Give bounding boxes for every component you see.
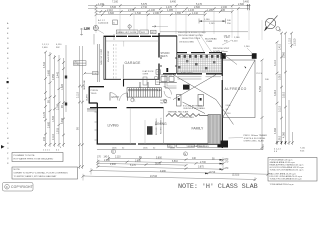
svg-text:1,620: 1,620: [61, 83, 64, 90]
svg-text:SEL. TILES: SEL. TILES: [198, 146, 209, 148]
svg-text:13,010: 13,010: [294, 38, 297, 46]
190 boxed label: [93, 72, 99, 75]
svg-text:J: J: [7, 123, 8, 125]
svg-text:1,160: 1,160: [204, 19, 210, 21]
svg-text:2,440: 2,440: [56, 71, 59, 78]
tag circle A: [93, 25, 98, 30]
svg-text:4,460: 4,460: [274, 127, 277, 134]
dim line row 4: [96, 14, 205, 16]
svg-text:1,905: 1,905: [167, 9, 174, 12]
boxed tag over garage: [113, 20, 118, 25]
svg-text:1,240: 1,240: [244, 46, 250, 48]
svg-text:TO ENTRY, FAMILY, KITCHEN & HA: TO ENTRY, FAMILY, KITCHEN & HALLWAY: [14, 175, 57, 178]
misc small text above area box: [300, 148, 306, 153]
svg-text:9,480: 9,480: [160, 171, 166, 173]
svg-text:SQ SET: SQ SET: [160, 103, 168, 105]
staircase: [127, 88, 161, 97]
svg-text:OWNER TO SUPPLY & INSTALL FLOO: OWNER TO SUPPLY & INSTALL FLOOR COVERING…: [14, 172, 69, 175]
porch steps: [87, 109, 96, 111]
svg-text:HOT WATER PIPES TO BE INSULATE: HOT WATER PIPES TO BE INSULATED: [14, 158, 54, 161]
solid arrowheads at right ends: [205, 159, 223, 174]
svg-text:38,75: 38,75: [155, 163, 161, 165]
svg-text:7,160: 7,160: [112, 0, 119, 3]
darker bench row in terrace: [178, 55, 219, 69]
dim line C: [98, 167, 223, 170]
svg-text:1,540: 1,540: [135, 12, 142, 15]
svg-text:1,915: 1,915: [56, 127, 59, 134]
svg-text:4,510: 4,510: [43, 61, 46, 68]
svg-text:CEILING & SET PANEL: CEILING & SET PANEL: [183, 107, 206, 110]
alfresco side dim: [261, 60, 263, 150]
svg-text:JOISTS & FLOORING: JOISTS & FLOORING: [244, 138, 266, 140]
circled tag on dining wall: [163, 99, 166, 102]
rotated tiny labels: [43, 61, 80, 141]
svg-text:SAW CUT JOINT: SAW CUT JOINT: [100, 48, 103, 65]
left margin amendment column: [1, 22, 9, 165]
svg-text:2,700: 2,700: [200, 162, 206, 164]
svg-text:2,110: 2,110: [52, 134, 55, 140]
left dimension strings: [42, 44, 89, 169]
svg-text:NOTE: 'H' CLASS SLAB: NOTE: 'H' CLASS SLAB: [178, 183, 258, 191]
svg-text:ALFRESCO: ALFRESCO: [225, 87, 247, 91]
svg-text:3,600: 3,600: [108, 12, 115, 15]
wall extension pair: [65, 45, 67, 112]
svg-text:TOTAL F.FLOOR AREA 83.33 sq.m: TOTAL F.FLOOR AREA 83.33 sq.m: [270, 177, 302, 180]
pantry unit left: [177, 95, 182, 107]
kitchen counter along terrace wall: [178, 77, 222, 79]
thermal break zigzag: [166, 114, 208, 117]
svg-text:3,600: 3,600: [47, 69, 50, 76]
svg-text:(2,510): (2,510): [232, 174, 240, 176]
garage inner lining: [113, 44, 115, 79]
hall wall above living: [90, 107, 164, 109]
extension lines down to plan: [96, 4, 262, 40]
svg-text:2,160: 2,160: [234, 37, 240, 39]
ensuite partitions above stairs: [140, 77, 177, 88]
bbq corner hip diagonal: [223, 54, 238, 65]
right dimension strings: [257, 32, 297, 153]
svg-text:1,280: 1,280: [207, 9, 214, 12]
powder room fixtures: [154, 76, 158, 80]
svg-text:OVER CONC. SLAB: OVER CONC. SLAB: [244, 140, 265, 143]
svg-text:NOTE:: NOTE:: [14, 169, 21, 171]
living-dining divider: [129, 108, 131, 144]
svg-text:2,030: 2,030: [56, 103, 59, 110]
vertical dim lines: [45, 52, 47, 147]
plan walls: [89, 33, 257, 148]
garage door return wall: [123, 79, 125, 87]
svg-text:2,600: 2,600: [110, 164, 116, 166]
bottom end labels: [276, 142, 286, 145]
circled tags D and E: [112, 150, 116, 154]
svg-text:1,540: 1,540: [52, 115, 55, 122]
floor coverings note box: [12, 167, 78, 179]
svg-text:D: D: [112, 151, 114, 154]
bottom dimension block: [82, 150, 270, 181]
svg-text:1 1 1 1: 1 1 1 1: [43, 150, 50, 152]
family side small dims: [226, 105, 232, 115]
pantry unit right: [198, 95, 204, 107]
svg-text:PROVIDE STEP: PROVIDE STEP: [213, 48, 230, 50]
family deck strip hatch: [208, 115, 221, 145]
svg-text:5,220: 5,220: [232, 41, 238, 43]
svg-text:8,490: 8,490: [170, 1, 177, 4]
svg-text:THERMAL PAIL N AIR: THERMAL PAIL N AIR: [168, 110, 189, 113]
alfresco top posts: [221, 53, 226, 59]
dim line row 1: [88, 5, 249, 7]
svg-text:945: 945: [221, 9, 226, 12]
dark tick blobs on x66 line: [65, 76, 67, 106]
right side note: timber joists: [244, 135, 268, 143]
hall door swings: [164, 87, 172, 95]
svg-text:TOTAL AREA 293.64 sq.m: TOTAL AREA 293.64 sq.m: [270, 183, 294, 186]
small arrow marker: [152, 25, 156, 27]
svg-text:ENTRY: ENTRY: [112, 97, 120, 99]
svg-text:2,600: 2,600: [42, 47, 48, 49]
svg-text:2,600: 2,600: [224, 37, 230, 39]
svg-text:2,510: 2,510: [226, 113, 232, 115]
garage outer leaf lines: [97, 44, 99, 82]
svg-text:4,060: 4,060: [283, 131, 286, 138]
alfresco-side wall with window gaps: [177, 52, 222, 54]
svg-text:5,600: 5,600: [156, 157, 162, 159]
svg-text:BED 5: BED 5: [161, 55, 169, 58]
thermal label: [168, 106, 206, 120]
dim line B: [98, 163, 186, 165]
svg-text:3,960: 3,960: [283, 51, 286, 58]
svg-text:6,510: 6,510: [172, 161, 178, 163]
svg-text:OVER: OVER: [143, 73, 149, 75]
dim labels: [98, 0, 250, 15]
mid dim line right: [199, 19, 226, 24]
svg-text:2,470: 2,470: [128, 9, 135, 12]
left small bracket dim 1,190: [80, 28, 114, 45]
north arrow: [264, 16, 283, 33]
svg-text:1,110: 1,110: [289, 38, 292, 44]
svg-text:1,410: 1,410: [192, 12, 199, 15]
kitchen bench: [165, 75, 177, 88]
plumber note box: [12, 153, 63, 162]
svg-text:3,875: 3,875: [198, 167, 204, 169]
svg-text:2,600: 2,600: [238, 3, 245, 6]
dim line row 3: [96, 11, 232, 13]
kitchen island: [183, 85, 190, 90]
svg-text:PROVIDE WEEP HOLES: PROVIDE WEEP HOLES: [178, 35, 203, 37]
svg-text:ON 50mm BED: ON 50mm BED: [179, 42, 194, 44]
hall cupboard: [143, 77, 147, 85]
svg-text:4,110: 4,110: [56, 44, 62, 46]
svg-text:900x2100 SLIDING DOORS: 900x2100 SLIDING DOORS: [178, 32, 206, 34]
room labels: [91, 52, 247, 148]
cross ticks: [44, 51, 84, 168]
bottom wall: [97, 143, 228, 145]
svg-text:SET DOWN: SET DOWN: [161, 75, 173, 77]
svg-text:2,600: 2,600: [226, 105, 232, 107]
small dims right of alfresco: [257, 73, 270, 81]
tiled terrace grid hatch: [177, 55, 222, 73]
svg-text:KITCHEN: KITCHEN: [181, 71, 193, 75]
svg-text:2,600: 2,600: [47, 121, 50, 128]
svg-text:GARAGE: GARAGE: [125, 61, 142, 65]
family right wall: [221, 53, 223, 148]
top dimension block: [80, 0, 262, 44]
svg-text:SELECTED TILES: SELECTED TILES: [182, 38, 201, 40]
svg-text:2,600: 2,600: [104, 160, 110, 162]
svg-text:5,170: 5,170: [130, 165, 136, 167]
garage top wall: [104, 35, 160, 37]
copyright box: [3, 183, 34, 192]
dining-family divider: [163, 108, 165, 144]
veranda tag boxes: [168, 145, 218, 148]
living left wall: [96, 103, 98, 145]
window tag boxes above garage: [116, 30, 156, 34]
boundary line: [160, 31, 248, 33]
svg-text:90x90 POST: 90x90 POST: [108, 50, 110, 62]
svg-text:LIVING: LIVING: [108, 124, 119, 128]
wc under stairs: [131, 97, 136, 102]
svg-text:2,030: 2,030: [153, 12, 160, 15]
bottom arrow labels: [43, 147, 62, 152]
svg-text:TOTAL G.FLOOR AREA 210.31 sq.m: TOTAL G.FLOOR AREA 210.31 sq.m: [270, 168, 304, 171]
svg-text:2,600: 2,600: [194, 6, 201, 9]
svg-text:2,110: 2,110: [77, 92, 80, 98]
svg-text:5,170: 5,170: [43, 111, 46, 118]
svg-text:2,950: 2,950: [52, 73, 55, 80]
row ticks: [95, 4, 251, 16]
garage door inner lining: [106, 40, 159, 42]
left edge marker arrow: [1, 145, 5, 149]
dim line D: [91, 171, 268, 175]
svg-text:3,010: 3,010: [279, 73, 282, 80]
kitchen wall stub: [166, 68, 168, 72]
entry door swing: [110, 93, 118, 101]
svg-text:5,750: 5,750: [259, 85, 262, 92]
left mid window tags: [74, 61, 87, 66]
svg-text:TILED: TILED: [91, 93, 97, 95]
alfresco fall arrow: [244, 62, 249, 68]
roof cross diagonals over kitchen: [173, 75, 234, 125]
svg-text:1,190: 1,190: [84, 27, 91, 30]
top labels cluster: [42, 44, 62, 49]
svg-text:1,1,1,1: 1,1,1,1: [42, 44, 49, 46]
svg-text:PANEL LIFT DOOR: PANEL LIFT DOOR: [117, 31, 137, 34]
svg-text:2,910: 2,910: [279, 135, 282, 142]
ticks: [82, 157, 270, 181]
veranda edge line: [97, 149, 263, 151]
svg-text:3,600: 3,600: [135, 160, 141, 162]
svg-text:PLUMBER TO NOTE:: PLUMBER TO NOTE:: [14, 155, 36, 157]
entry bay walls: [89, 87, 104, 104]
dining nook dark: [147, 126, 153, 135]
studio top wall: [159, 35, 177, 37]
alfresco outline: [223, 60, 255, 118]
svg-text:3,915: 3,915: [61, 117, 64, 124]
svg-text:3,110: 3,110: [274, 60, 277, 66]
living window tick pairs on left wall: [95, 112, 98, 140]
svg-text:2,410: 2,410: [279, 43, 282, 50]
ticks: [276, 32, 295, 144]
dim line row 2: [88, 8, 249, 10]
svg-text:3,110: 3,110: [279, 106, 282, 112]
svg-text:1,190: 1,190: [98, 3, 105, 6]
svg-text:PROV. 140mm TIMBER: PROV. 140mm TIMBER: [244, 135, 268, 137]
svg-text:DOWN 100mm: DOWN 100mm: [213, 51, 228, 53]
svg-text:PORCH: PORCH: [91, 90, 99, 92]
svg-text:1710: 1710: [210, 172, 216, 174]
svg-text:FAMILY: FAMILY: [192, 127, 205, 131]
svg-text:2,110: 2,110: [115, 157, 121, 159]
studio right wall: [176, 36, 178, 74]
svg-text:24,510: 24,510: [150, 176, 158, 178]
text annotations above plan: [178, 32, 250, 53]
svg-text:9,400: 9,400: [243, 1, 250, 4]
svg-text:3,010: 3,010: [274, 89, 277, 96]
svg-text:GROUND FALL: GROUND FALL: [180, 116, 196, 119]
svg-text:OBSCURE: OBSCURE: [84, 79, 86, 90]
svg-text:1,650: 1,650: [175, 12, 182, 15]
garage bottom wall: [104, 78, 160, 80]
connector verticals: [82, 174, 84, 181]
dim line E: [83, 176, 255, 179]
studio window jambs: [160, 58, 177, 66]
svg-text:3,510: 3,510: [283, 91, 286, 98]
bottom-right corner mass: [218, 141, 229, 148]
svg-text:2,145: 2,145: [209, 23, 215, 25]
rotated labels: [274, 38, 296, 142]
svg-text:OVER: OVER: [206, 41, 213, 43]
labels: [97, 157, 240, 179]
notes and title: [3, 148, 318, 192]
svg-text:2,710: 2,710: [141, 6, 148, 9]
svg-text:P.O.S: P.O.S: [257, 73, 263, 75]
dim line A: [98, 161, 223, 164]
garage right wall: [158, 33, 160, 80]
under-wall window tags: [112, 148, 175, 150]
area schedule box: [268, 158, 317, 182]
svg-text:(validated): (validated): [98, 21, 108, 24]
kitchen top wall: [163, 73, 223, 75]
dim line L1: [109, 158, 224, 160]
interior details: [84, 32, 268, 150]
svg-text:ROLLED CEILING: ROLLED CEILING: [156, 118, 158, 135]
leader lines top annotations: [196, 34, 253, 55]
svg-text:W12: W12: [141, 32, 146, 34]
hatches: [87, 55, 222, 145]
alfresco top beam: [226, 55, 252, 57]
svg-text:GLASS: GLASS: [86, 94, 89, 101]
svg-text:COPYRIGHT: COPYRIGHT: [11, 185, 33, 189]
svg-text:240: 240: [43, 136, 46, 141]
svg-text:DINING: DINING: [155, 122, 167, 126]
garage left wall (double): [103, 36, 105, 80]
